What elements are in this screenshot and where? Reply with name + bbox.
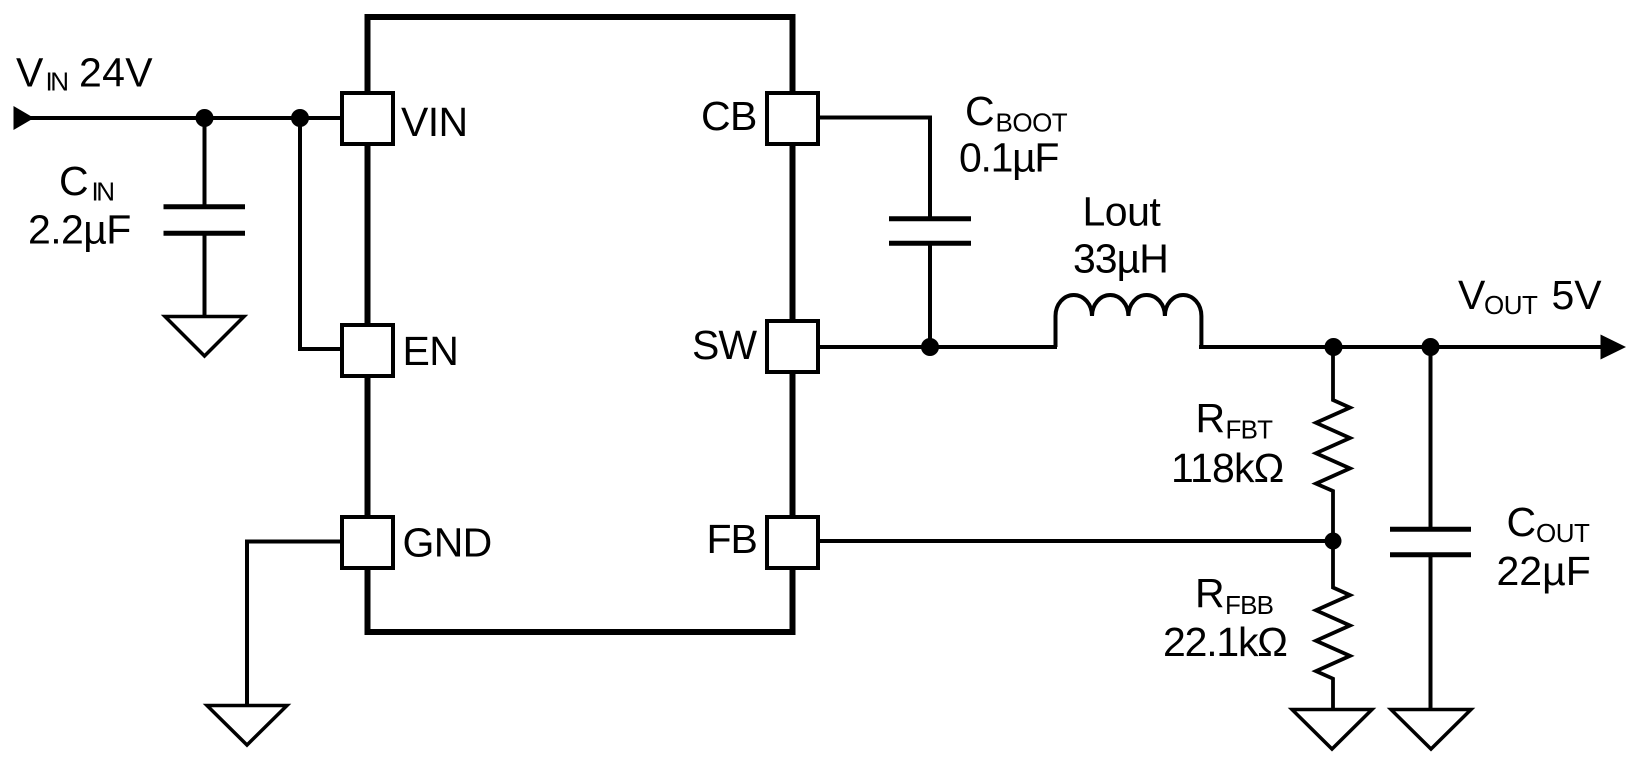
svg-text:GND: GND	[403, 520, 492, 566]
node junction dot COUT	[1422, 338, 1440, 356]
pin square VIN	[342, 93, 393, 144]
pin square SW	[767, 321, 818, 372]
svg-text:R: R	[1195, 570, 1225, 616]
svg-text:FB: FB	[707, 516, 757, 562]
pin square GND	[342, 517, 393, 568]
svg-text:BOOT: BOOT	[996, 108, 1068, 138]
wire CB branch	[820, 118, 930, 218]
svg-text:22.1kΩ: 22.1kΩ	[1163, 619, 1287, 665]
resistor R_FBB	[1316, 541, 1350, 710]
svg-text:0.1µF: 0.1µF	[959, 135, 1058, 181]
svg-text:22µF: 22µF	[1497, 548, 1591, 594]
svg-text:33µH: 33µH	[1073, 236, 1168, 282]
inductor Lout	[1056, 295, 1202, 347]
svg-text:C: C	[965, 88, 995, 134]
wire CIN top lead	[203, 118, 207, 205]
ground CIN	[165, 317, 244, 357]
label VOUT 5V net	[1458, 272, 1602, 320]
ground GND pin	[207, 706, 287, 746]
output terminal arrow	[1601, 335, 1627, 360]
svg-text:SW: SW	[692, 322, 757, 368]
svg-text:V: V	[16, 50, 44, 96]
svg-text:V: V	[1458, 272, 1486, 318]
wire VIN input	[26, 116, 340, 120]
wire GND branch	[247, 542, 340, 707]
svg-text:2.2µF: 2.2µF	[28, 207, 131, 253]
label CIN	[59, 158, 113, 207]
wire EN branch	[300, 118, 340, 349]
capacitor C_OUT plates	[1390, 529, 1471, 554]
ground COUT	[1391, 710, 1471, 750]
node junction dot A	[196, 109, 214, 127]
node junction dot FB	[1325, 533, 1342, 550]
node junction dot B	[291, 109, 309, 127]
wire COUT top lead	[1429, 347, 1433, 528]
svg-text:24V: 24V	[79, 50, 153, 96]
wire SW to inductor	[820, 345, 1057, 349]
node junction dot CBOOT/SW	[921, 338, 939, 356]
capacitor C_BOOT plates	[889, 219, 971, 243]
ground RFBB	[1292, 710, 1372, 750]
wire FB	[820, 539, 1333, 543]
svg-text:OUT: OUT	[1536, 518, 1590, 548]
wire CBOOT bottom lead	[928, 245, 932, 347]
label COUT	[1507, 499, 1591, 548]
svg-text:CB: CB	[701, 93, 757, 139]
svg-text:FBT: FBT	[1226, 415, 1274, 445]
svg-text:OUT: OUT	[1484, 290, 1538, 320]
input terminal arrow	[14, 106, 35, 130]
svg-text:IN: IN	[92, 177, 114, 207]
capacitor C_IN plates	[164, 207, 246, 233]
label CBOOT	[965, 88, 1068, 138]
wire CIN bottom lead	[203, 235, 207, 318]
label VIN 24V net	[16, 50, 153, 97]
wire COUT bottom lead	[1429, 556, 1433, 710]
svg-text:C: C	[1507, 499, 1537, 545]
pin square EN	[342, 325, 393, 376]
label RFBB	[1195, 570, 1273, 620]
svg-text:5V: 5V	[1552, 272, 1603, 318]
pin square FB	[767, 517, 818, 568]
svg-text:EN: EN	[403, 328, 459, 374]
svg-text:FBB: FBB	[1225, 590, 1273, 620]
label RFBT	[1196, 395, 1274, 445]
node junction dot RFBT	[1325, 338, 1343, 356]
svg-text:Lout: Lout	[1083, 189, 1162, 235]
svg-text:IN: IN	[46, 67, 68, 97]
svg-text:118kΩ: 118kΩ	[1171, 445, 1284, 491]
svg-text:VIN: VIN	[401, 99, 468, 145]
pin square CB	[767, 93, 818, 144]
wire output	[1199, 345, 1603, 349]
op IC U1 body	[368, 17, 793, 632]
resistor R_FBT	[1316, 347, 1350, 541]
svg-text:C: C	[59, 158, 89, 204]
svg-text:R: R	[1196, 395, 1226, 441]
